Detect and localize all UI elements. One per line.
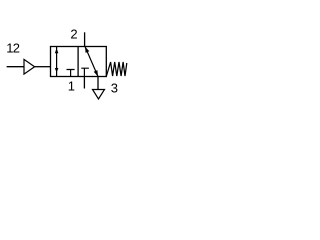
- wire pilot line to valve body: [35, 66, 51, 68]
- exhaust silencer triangle at port 3: [93, 90, 105, 100]
- port label 3: [111, 81, 118, 96]
- pilot signal label 12: [6, 40, 20, 55]
- left position blocked port 3 T symbol: [67, 70, 75, 77]
- pneumatic pilot actuator triangle: [24, 59, 35, 74]
- wire pilot line left segment: [7, 66, 24, 68]
- wire port 2 connection stub: [84, 32, 86, 46]
- wire port 1 connection stub: [83, 77, 85, 89]
- right position blocked port 1 T symbol: [81, 68, 89, 76]
- svg-text:12: 12: [6, 40, 20, 55]
- valve V1 body outline: [51, 47, 107, 77]
- wire port 3 connection stub: [97, 77, 99, 90]
- svg-text:2: 2: [70, 26, 77, 41]
- port label 2: [70, 26, 77, 41]
- left position flow path arrow 1-2: [55, 47, 59, 77]
- port label 1: [68, 78, 75, 93]
- right position flow path arrow 2-3: [85, 47, 98, 77]
- svg-text:3: 3: [111, 81, 118, 96]
- return spring: [106, 62, 127, 77]
- svg-text:1: 1: [68, 78, 75, 93]
- valve body divider between positions: [77, 47, 79, 77]
